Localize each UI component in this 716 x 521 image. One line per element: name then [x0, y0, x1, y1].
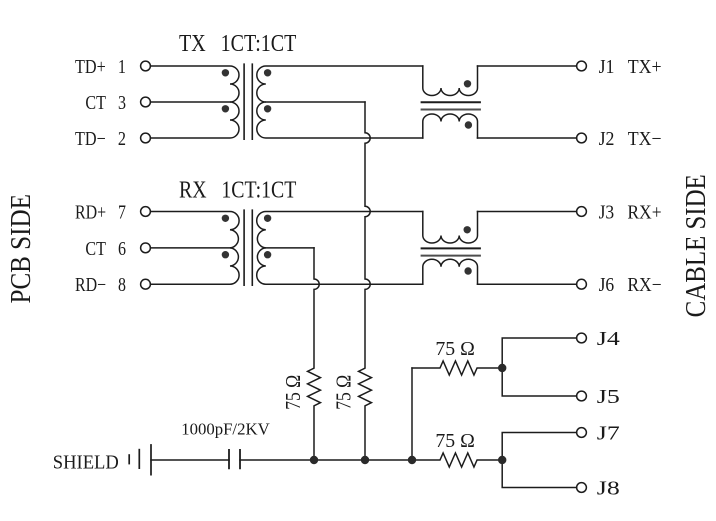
junction dot R3/J4/J5 — [498, 364, 506, 372]
wire TX secondary CT to V2 — [266, 101, 365, 103]
svg-text:PCB SIDE: PCB SIDE — [5, 194, 37, 303]
wire V3 rail to R3 — [411, 368, 413, 460]
pin circle TD- 2 — [141, 133, 151, 143]
svg-text:RX 1CT:1CT: RX 1CT:1CT — [179, 178, 297, 204]
wire shield to capacitor — [151, 459, 229, 461]
shield symbol bars — [128, 454, 130, 464]
wire choke L1 to J2 — [478, 137, 577, 139]
choke L2 phase dots — [464, 226, 471, 233]
junction dot rail/V3 — [408, 456, 416, 464]
transformer T1 phase dots — [222, 69, 229, 76]
choke L2 bottom winding — [423, 259, 478, 284]
capacitor C1 plates — [229, 449, 240, 469]
transformer T2 primary winding (with pin wires) — [151, 212, 240, 285]
wire RX primary CT — [151, 247, 231, 249]
junction dot rail/V2 — [361, 456, 369, 464]
wire choke L2 to J3 — [478, 211, 577, 213]
wire TX primary CT — [151, 101, 231, 103]
pin circle J2 — [577, 133, 587, 143]
svg-text:75 Ω: 75 Ω — [281, 375, 305, 410]
svg-text:CT 3: CT 3 — [85, 92, 126, 114]
svg-text:RD− 8: RD− 8 — [75, 274, 126, 296]
svg-text:CT 6: CT 6 — [85, 238, 126, 260]
choke L1 core — [421, 101, 481, 103]
choke L1 phase dots — [464, 80, 471, 87]
choke L1 bottom winding — [423, 114, 478, 138]
choke L2 top winding — [423, 212, 478, 244]
svg-text:J8: J8 — [597, 478, 620, 500]
resistor R2 vertical with wire V2 and hops — [359, 102, 372, 460]
svg-text:CABLE SIDE: CABLE SIDE — [680, 174, 712, 317]
pin circle J8 — [577, 483, 587, 493]
pin circle J1 — [577, 61, 587, 71]
svg-text:75 Ω: 75 Ω — [435, 338, 475, 360]
pin circle J5 — [577, 391, 587, 401]
svg-text:J7: J7 — [597, 423, 620, 445]
wire choke L1 to J1 — [478, 65, 577, 67]
svg-text:RD+ 7: RD+ 7 — [75, 202, 126, 224]
svg-text:TX 1CT:1CT: TX 1CT:1CT — [179, 31, 297, 57]
transformer T1 core — [244, 63, 252, 140]
svg-text:TD+ 1: TD+ 1 — [75, 56, 126, 78]
pin circle CT 6 — [141, 243, 151, 253]
wire branch to J4 and J5 — [502, 338, 576, 396]
svg-text:1000pF/2KV: 1000pF/2KV — [181, 419, 270, 438]
resistor R1 vertical with wire V1 and hop — [308, 248, 321, 460]
svg-text:TD− 2: TD− 2 — [75, 128, 126, 150]
transformer T1 primary winding (with pin wires) — [151, 66, 240, 138]
junction dot rail/V1 — [310, 456, 318, 464]
svg-text:J4: J4 — [597, 328, 620, 350]
svg-text:J5: J5 — [597, 386, 620, 408]
svg-text:75 Ω: 75 Ω — [435, 430, 475, 452]
svg-text:J1 TX+: J1 TX+ — [599, 56, 662, 78]
pin circle J7 — [577, 428, 587, 438]
junction dot rail/J7/J8 — [498, 456, 506, 464]
transformer T2 secondary winding (with wires to choke) — [257, 212, 423, 285]
choke L1 top winding — [423, 66, 478, 96]
transformer T2 core — [244, 209, 252, 286]
transformer T2 phase dots — [222, 215, 229, 222]
svg-text:J6 RX−: J6 RX− — [599, 274, 662, 296]
pin circle J4 — [577, 333, 587, 343]
pin circle RD- 8 — [141, 279, 151, 289]
svg-text:SHIELD: SHIELD — [53, 452, 119, 474]
svg-text:J2 TX−: J2 TX− — [599, 128, 662, 150]
ground rail with resistor R4 — [240, 453, 502, 467]
pin circle TD+ 1 — [141, 61, 151, 71]
transformer T1 secondary winding (with wires to choke) — [257, 66, 423, 138]
svg-text:J3 RX+: J3 RX+ — [599, 202, 662, 224]
pin circle J3 — [577, 207, 587, 217]
resistor R3 horizontal — [412, 361, 502, 375]
pin circle RD+ 7 — [141, 207, 151, 217]
wire choke L2 to J6 — [478, 283, 577, 285]
svg-text:75 Ω: 75 Ω — [331, 375, 355, 410]
choke L2 core — [421, 247, 481, 249]
pin circle CT 3 — [141, 97, 151, 107]
pin circle J6 — [577, 279, 587, 289]
wire branch to J7 and J8 — [502, 433, 576, 488]
wire RX secondary CT to V1 — [266, 247, 314, 249]
